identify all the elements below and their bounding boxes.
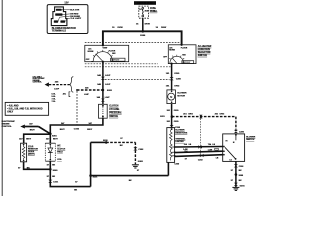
svg-text:BK/Y: BK/Y xyxy=(53,139,59,141)
svg-text:FLOOR: FLOOR xyxy=(181,47,188,49)
splice S201 xyxy=(102,89,105,92)
mechanical link dashed top xyxy=(85,42,180,44)
blower switch wiper xyxy=(225,147,236,159)
svg-text:LG/P: LG/P xyxy=(105,84,111,86)
svg-text:SWITCH: SWITCH xyxy=(198,55,208,57)
svg-text:LG/P: LG/P xyxy=(84,94,89,96)
svg-text:DEFROST: DEFROST xyxy=(182,62,191,64)
svg-text:MOTOR: MOTOR xyxy=(177,95,185,97)
svg-text:C202: C202 xyxy=(198,159,203,161)
fuse F10 xyxy=(142,7,144,17)
connector C202 on tap HI xyxy=(198,145,202,149)
svg-text:SELECTOR: SELECTOR xyxy=(198,52,211,54)
dashed ground wire to G100 xyxy=(106,141,135,143)
svg-text:12V: 12V xyxy=(64,2,69,5)
svg-text:BK: BK xyxy=(239,180,242,182)
svg-text:57: 57 xyxy=(185,159,187,161)
svg-text:ORG: ORG xyxy=(174,85,179,87)
resistor pack tap terminals xyxy=(174,146,176,148)
svg-text:THERMAL: THERMAL xyxy=(175,137,186,140)
resistor assembly xyxy=(21,143,27,162)
wire 347 pressure switch to S261 xyxy=(50,118,103,134)
svg-text:FUNCTION: FUNCTION xyxy=(198,49,210,51)
page border xyxy=(1,0,3,196)
svg-text:LIMITER: LIMITER xyxy=(175,141,184,143)
wire S261 to diode xyxy=(49,134,51,143)
svg-text:A/C: A/C xyxy=(63,93,67,96)
svg-text:BK: BK xyxy=(129,180,132,182)
splice S260 xyxy=(49,168,52,171)
svg-text:BK: BK xyxy=(52,165,55,167)
svg-text:FUSE: FUSE xyxy=(150,8,157,10)
svg-text:• 5.0L, 5.8L AND 7.5L WITH E4O: • 5.0L, 5.8L AND 7.5L WITH E4OD xyxy=(7,108,43,111)
splice S230 xyxy=(105,141,108,144)
left wafer rotary contact arc xyxy=(93,52,112,62)
left wafer: A/C switch section xyxy=(85,45,129,61)
right wafer output terminal xyxy=(171,63,173,65)
EEC note text xyxy=(33,76,46,83)
svg-text:BK: BK xyxy=(120,145,123,147)
connector line C100 xyxy=(76,91,78,124)
wire 261 drop to blower switch xyxy=(235,117,237,130)
wire tap LO xyxy=(175,155,223,157)
svg-text:PANEL: PANEL xyxy=(150,10,158,13)
svg-text:C200: C200 xyxy=(176,79,182,81)
ground G302 xyxy=(132,165,139,168)
wire diode to ground run xyxy=(50,161,90,186)
svg-text:CLUTCH: CLUTCH xyxy=(57,148,66,150)
bottom ground wire xyxy=(91,175,169,177)
right wafer rotary contact arc xyxy=(170,56,184,63)
mechanical link dashed bottom xyxy=(85,63,158,65)
svg-text:ORG: ORG xyxy=(174,121,179,123)
blower resistors thermal limiter xyxy=(167,128,175,163)
leader lines xyxy=(58,10,70,22)
right wafer DEFROST position box xyxy=(182,61,194,64)
blower motor xyxy=(167,90,176,104)
blower switch ground xyxy=(235,161,237,187)
svg-text:BK/Y: BK/Y xyxy=(26,138,32,140)
svg-text:CONTROL: CONTROL xyxy=(2,126,13,128)
connector above pressure switch xyxy=(101,99,105,102)
wire tap MED xyxy=(175,151,223,152)
svg-text:BK/Y: BK/Y xyxy=(30,130,36,132)
svg-text:CONTROL: CONTROL xyxy=(33,82,43,84)
dashed wire 261 to blower switch xyxy=(172,116,236,118)
clutch cycling pressure switch xyxy=(99,104,108,118)
right wafer wiper xyxy=(172,58,177,64)
svg-text:AC-HEATER: AC-HEATER xyxy=(198,45,212,48)
svg-text:SWITCH: SWITCH xyxy=(246,139,255,141)
splice S206 xyxy=(142,30,145,33)
svg-text:S230: S230 xyxy=(103,140,108,142)
left wafer output terminal xyxy=(102,61,104,63)
splice S261 xyxy=(49,133,52,136)
svg-text:ONLY: ONLY xyxy=(7,112,14,114)
wire 57 ground bus vertical xyxy=(90,142,92,186)
splice S301 xyxy=(89,174,92,177)
svg-text:SWITCH: SWITCH xyxy=(109,116,118,118)
svg-text:BLK STR: BLK STR xyxy=(70,10,79,12)
connector C230 xyxy=(170,125,174,128)
svg-text:DKW: DKW xyxy=(145,23,151,25)
svg-text:M: M xyxy=(170,95,172,99)
svg-text:NORM: NORM xyxy=(169,50,175,52)
svg-text:ORG: ORG xyxy=(220,114,225,116)
connector C302 xyxy=(133,147,137,150)
wire 348: A/C switch down xyxy=(102,62,104,105)
function selector switch label xyxy=(198,45,212,57)
svg-text:ORG: ORG xyxy=(174,110,179,112)
svg-text:C302: C302 xyxy=(138,149,144,151)
wire to EEC dashed xyxy=(77,89,103,91)
A/C clutch field coil diode xyxy=(45,143,55,161)
svg-text:FIELD: FIELD xyxy=(57,152,63,154)
splice S280 xyxy=(235,173,238,176)
left wafer wiper xyxy=(96,54,103,61)
svg-text:BK/Y: BK/Y xyxy=(60,129,66,131)
svg-text:C100: C100 xyxy=(74,128,80,130)
svg-text:ORG: ORG xyxy=(174,73,179,75)
svg-text:30A: 30A xyxy=(145,10,149,13)
wire 57 top run xyxy=(91,141,107,143)
wire 261 motor down xyxy=(171,104,173,128)
svg-text:TERMINALS: TERMINALS xyxy=(52,30,67,33)
svg-text:S280: S280 xyxy=(239,175,244,177)
wire 347 to EEC xyxy=(25,126,39,128)
svg-text:BK/Y: BK/Y xyxy=(87,129,93,131)
svg-text:C280: C280 xyxy=(239,131,245,133)
connector C280 xyxy=(234,130,238,133)
svg-text:BLOWER: BLOWER xyxy=(175,129,185,131)
wire resistor to S260 xyxy=(24,162,51,170)
svg-text:C101: C101 xyxy=(53,181,59,183)
svg-text:COIL: COIL xyxy=(57,159,62,161)
svg-text:NORM: NORM xyxy=(88,51,94,53)
svg-text:BLOWER: BLOWER xyxy=(246,136,256,138)
svg-text:CYCLING: CYCLING xyxy=(109,109,119,111)
terminal labels xyxy=(70,10,81,20)
svg-text:LG/P: LG/P xyxy=(105,97,110,99)
svg-text:BK: BK xyxy=(52,176,55,178)
EEC arrow 5.8L xyxy=(45,82,49,86)
svg-text:C326: C326 xyxy=(239,166,244,168)
blower switch xyxy=(223,134,245,162)
diode CR1 symbol xyxy=(48,148,53,153)
brace xyxy=(70,77,73,93)
svg-text:C260: C260 xyxy=(174,163,179,165)
HOT IN RUN banner xyxy=(134,1,156,5)
engine list xyxy=(52,93,67,104)
wire 181: right wafer to motor xyxy=(171,64,173,90)
splice S231 xyxy=(171,115,174,118)
svg-text:RESISTORS: RESISTORS xyxy=(175,132,187,134)
svg-text:BK: BK xyxy=(239,170,242,172)
svg-text:YLK LG/PP: YLK LG/PP xyxy=(70,18,81,20)
ground G201 xyxy=(232,187,239,190)
connector C202 on wire 261 xyxy=(199,115,202,119)
blower resistor elements R1-R3 xyxy=(170,130,173,160)
terminal slots xyxy=(54,9,65,23)
arrow to electronic engine control xyxy=(20,125,25,129)
svg-text:PRESSURE: PRESSURE xyxy=(109,113,122,115)
svg-text:ORG: ORG xyxy=(188,114,193,116)
svg-text:BK: BK xyxy=(27,168,30,170)
wire 347 diagonal into S261 xyxy=(39,127,51,134)
connector C326 xyxy=(234,164,238,167)
svg-text:G201: G201 xyxy=(240,186,246,188)
electronic engine control arrow xyxy=(2,121,16,128)
svg-text:CLUTCH: CLUTCH xyxy=(109,106,119,108)
wire 754 tap HI xyxy=(175,146,223,149)
fuse panel box xyxy=(139,6,149,18)
connector C101 xyxy=(48,180,52,183)
wire to resistor assembly xyxy=(24,134,51,143)
svg-text:DEFROST: DEFROST xyxy=(111,60,120,62)
connector at ground G201 xyxy=(234,183,238,186)
svg-text:LG/P: LG/P xyxy=(105,75,111,77)
wire fuse to splice xyxy=(142,18,144,31)
svg-text:LG/P: LG/P xyxy=(54,89,59,91)
svg-text:(ASSY): (ASSY) xyxy=(28,152,35,155)
svg-text:S201: S201 xyxy=(107,90,113,92)
main feed wire xyxy=(103,31,182,45)
svg-text:HOT IN RUN: HOT IN RUN xyxy=(137,1,152,5)
left wafer DEFROST position box xyxy=(111,58,125,61)
svg-text:1.2W: 1.2W xyxy=(208,150,213,152)
connector C202 dashed boundary xyxy=(200,119,202,156)
svg-text:• 4.9L AND: • 4.9L AND xyxy=(7,104,19,107)
connector C202 on tap LO xyxy=(200,154,204,158)
connector C200 left half xyxy=(101,77,105,80)
svg-text:G302: G302 xyxy=(138,161,144,163)
connector face view: blower resistor terminals xyxy=(47,5,88,34)
svg-text:S206: S206 xyxy=(140,35,146,37)
svg-text:BK: BK xyxy=(74,190,77,192)
note box xyxy=(5,102,48,115)
inline connector on tap MED xyxy=(215,148,219,150)
connector silhouette xyxy=(51,7,67,26)
right wafer: blower feed section xyxy=(168,45,196,64)
